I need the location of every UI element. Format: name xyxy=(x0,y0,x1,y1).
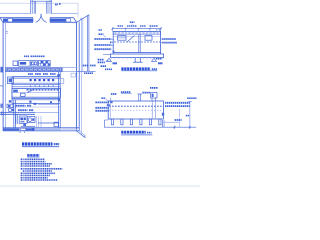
vertical pipe xyxy=(14,100,16,128)
left wall pilaster at walkway xyxy=(0,67,3,73)
internal box left xyxy=(118,36,126,41)
column block xyxy=(9,100,11,102)
right labels xyxy=(165,102,190,104)
right vertical dim line xyxy=(189,101,191,127)
small box lower right xyxy=(54,122,58,126)
bottom wall ticks below xyxy=(20,132,25,134)
slab underside line xyxy=(113,36,160,38)
far right top text xyxy=(187,97,196,99)
top wall corner chamfer left xyxy=(0,18,3,23)
left labels xyxy=(99,33,104,35)
grit channel double line xyxy=(12,99,61,100)
bottom wall fill segment C xyxy=(35,129,61,131)
grit channel faint line xyxy=(13,106,61,108)
left tiny label xyxy=(99,29,103,31)
tank inner left wall line xyxy=(109,101,111,120)
top wall fill segment C xyxy=(50,19,66,22)
top wall inner line xyxy=(3,21,77,23)
right arrow symbol xyxy=(152,58,157,61)
pump box on left xyxy=(7,77,13,84)
corridor small box xyxy=(60,79,63,84)
left wall xyxy=(2,22,4,131)
entrance bay inner jambs xyxy=(34,1,48,14)
top wall outer line xyxy=(0,17,74,19)
entrance bay right jamb xyxy=(50,0,52,14)
tank internal divider xyxy=(152,101,155,119)
left wall tick xyxy=(6,32,8,34)
tank grating dashed row xyxy=(27,89,59,91)
equipment box 1 xyxy=(13,61,18,66)
upper small label xyxy=(130,21,135,23)
left wall lower pilaster xyxy=(0,104,2,108)
third header line xyxy=(12,86,61,88)
tank top-left corner mark xyxy=(110,101,112,103)
small note left of title xyxy=(105,68,112,70)
top wall window box A xyxy=(8,19,12,22)
valve ticks row2 xyxy=(31,85,53,87)
right chamber dark mark xyxy=(162,113,164,116)
flange ticks xyxy=(2,112,4,116)
riser pipe with cap xyxy=(139,94,141,101)
bottom right text xyxy=(175,119,182,121)
top-left leader tick xyxy=(110,97,112,101)
interior wall box below walkway xyxy=(71,73,76,77)
ground line xyxy=(104,126,196,128)
canopy outer edge line xyxy=(0,2,78,4)
top hatch band xyxy=(113,32,160,35)
canopy inner edge line right xyxy=(52,13,78,15)
channel end dark mark xyxy=(58,99,60,102)
vertical pipe second pair xyxy=(16,114,17,124)
flow arrow diagonal xyxy=(27,89,34,93)
right tank edge verticals xyxy=(59,72,61,128)
top wall corner chamfer right xyxy=(74,18,77,23)
bottom wall fill segment B xyxy=(26,128,33,130)
wing bottom line xyxy=(77,70,96,72)
tank middle line xyxy=(12,92,61,94)
wing top bevel xyxy=(77,15,89,22)
door threshold ticks xyxy=(33,18,50,23)
second header pipe xyxy=(12,83,61,85)
plan bottom-right corner bevel xyxy=(77,131,85,137)
top wall fill segment A xyxy=(3,19,8,22)
top wall fill segment B xyxy=(13,19,33,22)
air header pipe xyxy=(12,77,61,79)
right outer wall xyxy=(76,22,78,131)
valve cluster xyxy=(7,104,13,107)
entrance bay left jamb xyxy=(31,0,33,14)
canopy right side faint vertical xyxy=(77,3,79,17)
railing post xyxy=(157,29,160,31)
walkway crosshatch band xyxy=(6,68,63,72)
internal diagonal xyxy=(127,36,134,42)
canopy inner edge line left xyxy=(0,13,30,15)
notes lines xyxy=(21,158,45,160)
equipment box 2 (control cabinet) xyxy=(19,61,30,67)
walkway extension lines xyxy=(62,68,76,72)
footing hatch ticks xyxy=(110,58,163,60)
pump block B xyxy=(27,117,35,123)
plan external label right xyxy=(83,65,89,67)
bottom frame line xyxy=(0,185,200,187)
diffuser legs xyxy=(111,119,113,125)
top wall window box B xyxy=(66,19,70,22)
grit tank upper xyxy=(12,88,61,97)
equipment box 3 (blower with impellers) xyxy=(31,61,37,67)
label above left xyxy=(111,93,117,95)
left step xyxy=(104,120,108,127)
main aeration tank box xyxy=(108,101,163,119)
footing slab xyxy=(111,54,164,58)
tank left inner dark box xyxy=(13,90,18,93)
light verticals right of pump xyxy=(37,116,42,127)
valve stems xyxy=(30,79,32,81)
internal divider xyxy=(139,34,140,52)
dash water line xyxy=(109,105,163,107)
pipe label text row xyxy=(28,73,33,75)
dim text row xyxy=(118,25,124,27)
footing end pads xyxy=(113,62,118,64)
pedestal xyxy=(135,58,140,62)
dim line xyxy=(113,28,161,30)
pump block A xyxy=(19,116,27,123)
bottom wall fill segment A xyxy=(4,128,20,130)
left wall pipe tick xyxy=(0,85,3,87)
bottom wall column block xyxy=(32,128,34,131)
grit channel bottom line xyxy=(12,102,61,104)
bottom wall window box xyxy=(21,128,26,130)
right side lines to tank edge xyxy=(38,104,59,106)
left frame vertical xyxy=(11,77,13,104)
roof label text xyxy=(55,4,58,6)
main inlet pipe through left wall xyxy=(0,113,35,115)
tank box xyxy=(113,32,160,53)
equipment box 4 (louver grid) xyxy=(38,61,50,67)
section 2 title xyxy=(121,131,146,134)
lower piping: text labels xyxy=(16,105,26,107)
double door arcs xyxy=(36,14,42,22)
entrance bay header xyxy=(31,0,52,2)
bottom right dim line xyxy=(175,125,190,129)
left labels xyxy=(101,97,105,99)
outlet step line xyxy=(164,121,180,123)
right labels xyxy=(161,38,162,40)
left arrow symbol xyxy=(107,58,112,61)
faint lower dotted line xyxy=(109,109,162,111)
water dash line xyxy=(114,41,160,43)
section 1 title xyxy=(121,67,150,70)
pump base line xyxy=(21,125,35,127)
equipment label text row xyxy=(24,55,29,57)
exterior stair wing right xyxy=(80,18,82,135)
bottom wall xyxy=(3,127,79,129)
internal box right xyxy=(145,36,152,41)
tank inner box xyxy=(21,93,26,96)
walkway right junction mark xyxy=(57,74,60,76)
channel marks xyxy=(34,103,37,105)
right chamber xyxy=(151,93,157,98)
